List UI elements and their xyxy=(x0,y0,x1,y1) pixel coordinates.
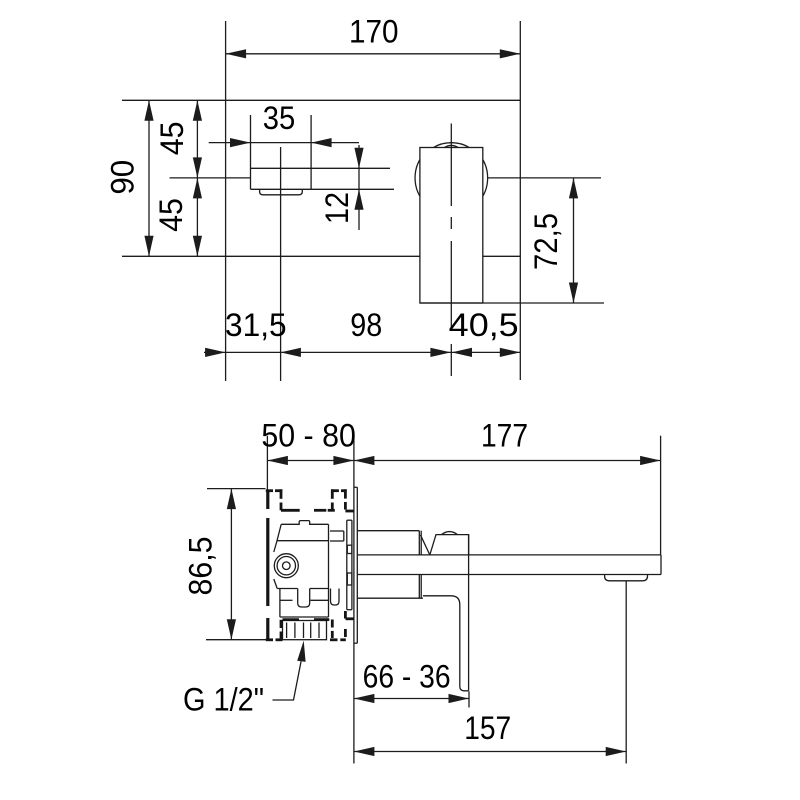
dim line 157 xyxy=(354,751,626,753)
wall plate xyxy=(354,487,357,643)
left dashed line xyxy=(266,490,269,641)
dim line 66-36 xyxy=(354,698,469,700)
spout rectangle top view xyxy=(251,115,312,189)
dim line 86,5 xyxy=(230,489,232,640)
plate outline top view xyxy=(122,21,520,381)
svg-text:G 1/2": G 1/2" xyxy=(183,682,264,718)
arrows top view xyxy=(144,49,578,357)
handle rectangle xyxy=(420,148,483,304)
spout bar xyxy=(357,555,661,575)
extension 72,5 top xyxy=(487,177,601,179)
body internal line xyxy=(277,540,329,542)
svg-text:157: 157 xyxy=(464,710,511,746)
wall line long xyxy=(353,436,355,764)
extension line right 177 xyxy=(660,436,662,555)
center horizontal line xyxy=(170,177,251,179)
body right edge xyxy=(328,524,330,588)
body top edge and tab xyxy=(281,521,328,525)
svg-text:72,5: 72,5 xyxy=(528,213,564,270)
handle circle xyxy=(415,142,488,215)
dim line 45-45 xyxy=(196,100,198,256)
right flange xyxy=(330,531,344,605)
lever top xyxy=(420,532,468,555)
lever blade xyxy=(423,535,469,691)
dim line 50-80 177 xyxy=(267,460,660,462)
wall block xyxy=(347,520,352,610)
outlet aerator xyxy=(605,575,648,581)
top step profile dashes xyxy=(266,489,354,511)
valve body xyxy=(274,520,352,640)
extension 66-36 right xyxy=(468,691,470,707)
bottom step profile dashes xyxy=(266,611,354,641)
cartridge housing lower xyxy=(357,575,423,599)
svg-text:31,5: 31,5 xyxy=(225,307,287,343)
dim line 35 xyxy=(209,142,359,144)
svg-text:45: 45 xyxy=(154,121,190,155)
extension line left 50-80 xyxy=(266,436,268,490)
texts side view xyxy=(183,418,529,746)
svg-text:98: 98 xyxy=(350,307,382,343)
extension 86,5 top xyxy=(207,488,266,490)
body U tab xyxy=(298,589,310,608)
dim line 31,5 98 40,5 xyxy=(204,351,520,353)
svg-text:50 - 80: 50 - 80 xyxy=(261,418,356,454)
spout lip xyxy=(260,189,303,195)
inlet circles xyxy=(274,554,298,578)
dim line 90 xyxy=(148,100,150,256)
svg-text:12: 12 xyxy=(319,192,355,224)
handle center line xyxy=(450,124,452,377)
thick dashed recess xyxy=(266,489,354,641)
handle bottom extension xyxy=(420,302,604,304)
leader G 1/2 xyxy=(273,661,302,700)
dim line 72,5 xyxy=(573,178,575,303)
spout center line xyxy=(280,147,282,381)
svg-text:177: 177 xyxy=(481,418,528,454)
cartridge housing upper xyxy=(357,531,421,555)
svg-text:86,5: 86,5 xyxy=(183,537,219,596)
dim line 170 xyxy=(226,53,521,55)
arrows side view xyxy=(227,456,661,756)
body lower tiers xyxy=(280,589,329,618)
extension 86,5 bottom xyxy=(206,639,266,641)
leader arrow G 1/2 xyxy=(297,641,305,662)
svg-text:45: 45 xyxy=(153,198,189,232)
body bottom edge xyxy=(277,588,298,590)
spout mid line xyxy=(251,167,391,169)
extension line 12 bottom xyxy=(311,188,394,190)
handle dome arc xyxy=(444,145,458,147)
body left edge xyxy=(274,524,281,552)
extension 157 right xyxy=(625,581,627,764)
texts top view xyxy=(104,14,564,343)
svg-text:35: 35 xyxy=(263,100,296,136)
svg-text:40,5: 40,5 xyxy=(449,307,519,343)
thread block xyxy=(283,621,327,640)
svg-text:90: 90 xyxy=(104,160,140,195)
dim line 12 xyxy=(358,145,360,230)
svg-text:66 - 36: 66 - 36 xyxy=(363,659,451,695)
svg-text:170: 170 xyxy=(349,14,399,50)
